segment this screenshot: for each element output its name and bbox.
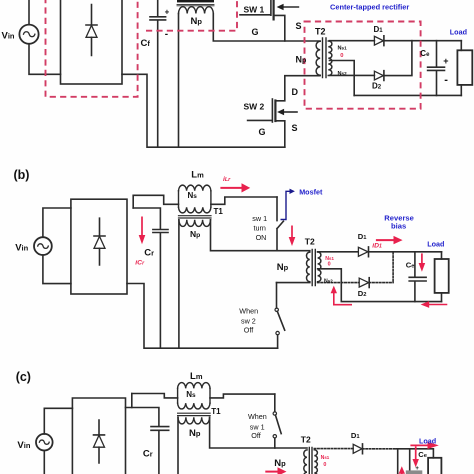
svg-text:G: G	[252, 27, 259, 37]
svg-text:(b): (b)	[14, 168, 30, 182]
svg-text:Cr: Cr	[143, 448, 153, 459]
svg-text:T1: T1	[214, 207, 224, 216]
svg-text:0: 0	[323, 462, 326, 468]
svg-text:Load: Load	[450, 27, 467, 36]
svg-text:Np: Np	[277, 262, 289, 273]
svg-text:iLr: iLr	[223, 176, 231, 183]
svg-text:sw 2: sw 2	[241, 317, 256, 326]
svg-text:(c): (c)	[16, 370, 31, 384]
svg-text:Center-tapped rectifier: Center-tapped rectifier	[330, 2, 409, 11]
svg-text:bias: bias	[391, 222, 406, 231]
svg-text:Vin: Vin	[15, 242, 28, 253]
svg-text:SW 1: SW 1	[244, 5, 265, 15]
svg-text:0: 0	[340, 53, 343, 59]
svg-text:Load: Load	[419, 437, 436, 446]
svg-text:-: -	[444, 74, 448, 86]
svg-text:When: When	[248, 412, 267, 421]
svg-text:-: -	[165, 29, 168, 40]
svg-text:+: +	[443, 56, 448, 66]
svg-text:T2: T2	[305, 236, 315, 246]
svg-text:T2: T2	[301, 435, 311, 445]
svg-text:Off: Off	[244, 326, 253, 335]
svg-text:S: S	[296, 21, 302, 31]
svg-text:Off: Off	[251, 431, 260, 440]
svg-text:Load: Load	[427, 239, 444, 248]
svg-text:Vin: Vin	[17, 440, 30, 451]
svg-text:T2: T2	[315, 26, 326, 36]
svg-text:Np: Np	[189, 428, 201, 439]
svg-text:Np: Np	[274, 458, 286, 469]
svg-text:ON: ON	[256, 233, 267, 242]
svg-text:G: G	[259, 127, 266, 137]
svg-text:T1: T1	[211, 407, 221, 416]
svg-text:D: D	[292, 87, 299, 97]
svg-text:iD1: iD1	[372, 243, 382, 250]
svg-text:Lm: Lm	[190, 371, 203, 382]
svg-text:Ns: Ns	[188, 191, 198, 200]
svg-text:Np: Np	[191, 16, 203, 27]
svg-text:Vin: Vin	[2, 31, 15, 42]
svg-text:0: 0	[328, 262, 331, 268]
svg-text:turn: turn	[254, 224, 266, 233]
svg-text:Ns: Ns	[186, 390, 196, 399]
svg-text:Lm: Lm	[191, 169, 204, 180]
svg-text:sw 1: sw 1	[252, 214, 267, 223]
svg-text:S: S	[292, 123, 298, 133]
svg-text:When: When	[239, 306, 258, 315]
svg-text:Cr: Cr	[144, 248, 154, 259]
svg-text:Cf: Cf	[141, 38, 151, 49]
svg-text:iCr: iCr	[135, 259, 145, 266]
svg-text:SW 2: SW 2	[244, 101, 265, 111]
svg-text:Mosfet: Mosfet	[299, 187, 323, 196]
svg-text:+: +	[415, 466, 419, 472]
svg-text:+: +	[165, 7, 170, 16]
